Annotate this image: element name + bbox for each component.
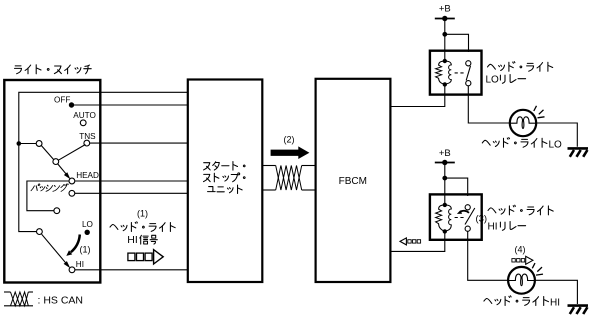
wire: branch to HI relay contact: [445, 178, 468, 196]
svg-text:(2): (2): [284, 134, 295, 144]
node: +B branch junction (HI): [442, 176, 447, 181]
curved arrow (3) contact closing: [460, 211, 469, 213]
contact: passing loop end: [54, 208, 60, 214]
lamp HI rays: [536, 274, 543, 275]
svg-text:+B: +B: [439, 4, 451, 15]
HI relay contact (open): [465, 205, 470, 210]
svg-text:HI: HI: [76, 260, 84, 269]
svg-text:OFF: OFF: [54, 96, 70, 105]
svg-text:FBCM: FBCM: [339, 176, 367, 187]
svg-text:HI: HI: [550, 298, 560, 309]
wire: feed from start-stop unit: [19, 92, 188, 231]
label: passing (irregular italic): [31, 184, 40, 191]
label: headlight LO relay: [488, 64, 496, 69]
curved arrow (1) LO to HI: [71, 235, 80, 253]
relay box: headlight LO relay: [430, 51, 482, 95]
node: +B branch junction: [442, 32, 447, 37]
wire: LO relay contact to LO lamp: [468, 86, 509, 123]
wire: LO lamp to ground: [536, 123, 577, 147]
rotary switch pivot: [36, 141, 42, 147]
signal arrow (4) right: [512, 259, 515, 262]
LO relay resistor (left leg): [436, 61, 445, 84]
svg-text:LO: LO: [82, 220, 93, 229]
relay box: headlight HI relay: [430, 194, 482, 239]
wire: HEAD to start-stop unit: [75, 180, 188, 182]
lamp LO rays: [538, 117, 545, 118]
signal arrow (1) right: [128, 253, 135, 261]
contact: passing output: [69, 190, 75, 196]
LO relay contact: [466, 61, 471, 66]
ground (LO lamp): [568, 148, 589, 156]
svg-text:+B: +B: [439, 148, 451, 159]
svg-text:(4): (4): [515, 245, 526, 255]
svg-text:LO: LO: [486, 74, 500, 85]
svg-text:HI: HI: [127, 234, 138, 246]
wire: HI relay coil to FBCM: [391, 231, 445, 251]
svg-text:(1): (1): [80, 245, 91, 255]
start-stop unit box: [188, 80, 262, 283]
arrow (2) solid black right: [271, 146, 310, 159]
wire: branch to LO relay contact: [445, 34, 469, 52]
ground (HI lamp): [568, 306, 589, 314]
rotary switch mid contact: [53, 159, 59, 165]
wire: passing to start-stop unit: [75, 192, 188, 194]
HI relay coil branch wires: [444, 196, 446, 205]
light switch box: [4, 80, 100, 283]
LO relay coil branch wires: [444, 52, 446, 61]
switch arm mid to HEAD with arrowhead: [58, 164, 67, 175]
wire: +B down to HI relay coil: [444, 163, 446, 197]
wire: passing loop from HEAD: [27, 181, 69, 211]
switch arm pivot to mid: [41, 146, 53, 160]
label: headlight LO: [482, 140, 490, 145]
svg-text:(3): (3): [475, 214, 487, 225]
wire: TNS to start-stop unit: [90, 142, 188, 144]
wire: HI lamp to ground: [535, 280, 578, 304]
HI relay mech link (dashed): [455, 217, 465, 219]
wire: LO relay coil to FBCM: [391, 84, 445, 106]
lamp: headlight HI: [508, 267, 535, 294]
svg-text:TNS: TNS: [79, 132, 96, 141]
svg-text:HI: HI: [488, 221, 498, 232]
svg-text:(1): (1): [137, 209, 148, 219]
wire: HI to start-stop unit: [75, 269, 188, 271]
HI relay resistor (left leg): [436, 205, 445, 232]
label: headlight HI: [484, 299, 492, 304]
svg-text:AUTO: AUTO: [73, 111, 96, 120]
twisted pair wires between start-stop unit and FBCM: [263, 165, 276, 167]
label: headlight HI relay: [488, 208, 496, 213]
legend: HS CAN twisted pair symbol: [4, 291, 11, 293]
dimmer switch pivot: [37, 229, 43, 235]
twisted pair braid: [276, 166, 302, 191]
LO relay coil (right leg): [445, 61, 452, 84]
wire: +B down to LO relay coil: [444, 19, 446, 53]
label: light switch (raito suitchi): [15, 66, 22, 74]
svg-text:LO: LO: [549, 139, 563, 150]
LO relay mech link (dashed): [455, 72, 465, 74]
HI relay coil (right leg): [445, 205, 452, 232]
signal arrow left into FBCM: [400, 238, 406, 245]
node: feed junction: [17, 141, 22, 146]
svg-text:HEAD: HEAD: [76, 171, 99, 180]
switch arm mid to TNS: [58, 145, 85, 161]
lamp: headlight LO: [510, 110, 536, 136]
label: start-stop unit: [204, 163, 211, 170]
svg-text:: HS CAN: : HS CAN: [38, 294, 84, 306]
wire: HI relay contact to HI lamp: [468, 231, 508, 280]
FBCM box: [316, 79, 391, 282]
switch arm pivot to HI with arrowhead: [42, 234, 67, 264]
wire: OFF to start-stop unit: [72, 104, 188, 106]
